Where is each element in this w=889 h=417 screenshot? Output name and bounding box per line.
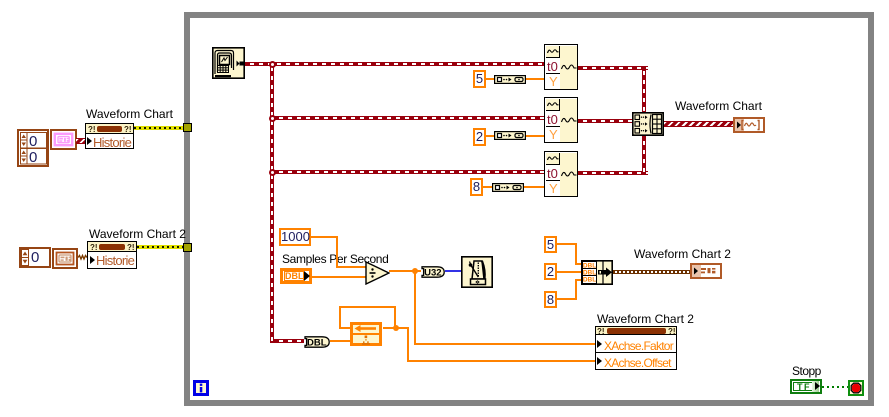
svg-text:DBL: DBL: [583, 269, 596, 276]
svg-text:DBL: DBL: [307, 337, 327, 348]
svg-text:DBL: DBL: [583, 262, 596, 269]
svg-text:U32: U32: [424, 267, 441, 278]
svg-text:DBL: DBL: [583, 277, 596, 284]
